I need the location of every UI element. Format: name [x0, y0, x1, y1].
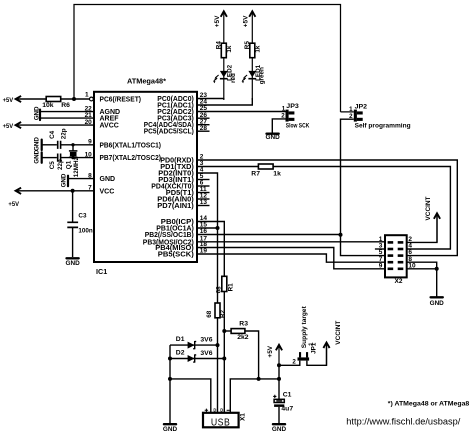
svg-text:D2: D2	[176, 350, 185, 357]
svg-text:9: 9	[88, 139, 92, 146]
IC1 left pin numbers	[85, 92, 93, 192]
node R3/D-	[222, 329, 226, 333]
wire X2 pin 8 to pin 10 to ground	[407, 262, 437, 296]
capacitor C4 22p	[42, 128, 67, 149]
node +5V rail / C1	[277, 377, 281, 381]
pin 1 inversion circle (PC6/RESET)	[90, 97, 94, 101]
svg-text:1k: 1k	[226, 45, 233, 53]
svg-text:+5V: +5V	[3, 123, 14, 130]
wire R3 to +5V rail	[245, 331, 259, 379]
resistor R1 68	[215, 276, 234, 293]
jumper JP1 supply target	[292, 305, 317, 365]
wire AREF pin 21	[40, 117, 94, 119]
wire JP1 pin 1 to VCCINT arrow	[307, 347, 327, 365]
node VCC/C3	[71, 189, 75, 193]
+5V supply arrow (R5 branch)	[243, 11, 256, 100]
node GND rail left	[168, 377, 172, 381]
svg-text:Q1: Q1	[65, 160, 72, 169]
svg-text:AREF: AREF	[100, 116, 120, 123]
wire PB4 pin 18 to X2 pin 9 (MISO)	[197, 248, 385, 269]
svg-text:+5V: +5V	[243, 15, 250, 27]
ground symbol pin8 (rotated)	[61, 173, 68, 187]
wire PB2 pin 16 to X2 pin 5 (target reset)	[197, 235, 385, 256]
svg-text:+5V: +5V	[267, 345, 274, 357]
svg-text:D1: D1	[176, 336, 185, 343]
diode D1 3V6 zener	[176, 336, 213, 349]
svg-text:7: 7	[88, 185, 92, 192]
resistor R3 2k2	[224, 320, 248, 341]
ground symbol USB left	[163, 424, 178, 433]
svg-text:JP3: JP3	[286, 103, 299, 110]
svg-text:D: D	[213, 408, 216, 413]
ground symbol C5 (rotated)	[33, 150, 41, 164]
node +5V / JP1	[277, 363, 281, 367]
wire PD1 pin 3 to R7	[197, 166, 258, 168]
node R3 drop / +5V rail	[257, 377, 261, 381]
svg-text:21: 21	[85, 112, 93, 119]
svg-text:GND: GND	[430, 300, 445, 307]
svg-text:D: D	[220, 408, 223, 413]
svg-text:JP1: JP1	[310, 342, 317, 354]
resistor R4 1k	[215, 41, 233, 58]
svg-text:9: 9	[379, 262, 383, 269]
svg-text:PC5(ADC5/SCL): PC5(ADC5/SCL)	[144, 129, 194, 136]
wire reset net: top rail from above IC to JP2	[74, 5, 354, 112]
diode D2 3V6 zener	[176, 350, 213, 363]
wire PD2 pin 4 / PB1 pin 15 D+ net down	[197, 173, 218, 303]
svg-text:1k: 1k	[255, 45, 262, 53]
svg-text:1: 1	[85, 92, 89, 99]
svg-text:USB: USB	[211, 417, 231, 428]
svg-text:PB6(XTAL1/TOSC1): PB6(XTAL1/TOSC1)	[100, 142, 162, 149]
node D1/D+	[216, 343, 220, 347]
wire D1 row	[170, 344, 218, 346]
svg-text:GND: GND	[33, 106, 40, 120]
ground symbol AGND/AREF (rotated)	[33, 106, 40, 120]
svg-text:PB5(SCK): PB5(SCK)	[158, 252, 194, 259]
svg-text:R3: R3	[239, 320, 248, 327]
capacitor C3 100n	[67, 191, 93, 257]
node PB1/D+	[216, 226, 220, 230]
wire PC1 pin 24 to LED branch	[197, 98, 252, 105]
svg-text:Supply target: Supply target	[301, 305, 308, 348]
IC1 left pin names	[100, 97, 162, 196]
IC1 right pin names	[143, 96, 194, 259]
node D2 anode	[168, 357, 172, 361]
note ATMega48 footnote	[388, 400, 470, 407]
capacitor C1 4u7	[273, 365, 293, 423]
svg-text:R7: R7	[251, 171, 260, 178]
svg-text:3V6: 3V6	[200, 350, 212, 357]
node crystal/XTAL2	[71, 156, 74, 159]
resistor R5 1k	[244, 41, 262, 58]
IC1 unconnected pin stubs (26,27,28,5,6,11,12,13)	[197, 118, 210, 205]
node X2 pin8/pin10	[435, 267, 439, 271]
svg-text:68: 68	[215, 286, 222, 294]
svg-text:4u7: 4u7	[281, 405, 293, 412]
svg-text:http://www.fischl.de/usbasp/: http://www.fischl.de/usbasp/	[346, 417, 460, 428]
wire X2 pin 2 to VCCINT arrow	[407, 213, 437, 242]
ground symbol C3	[66, 258, 81, 267]
connector X1 USB	[203, 413, 246, 429]
svg-text:X1: X1	[239, 413, 246, 421]
svg-text:*) ATMega48 or ATMega8: *) ATMega48 or ATMega8	[388, 400, 470, 407]
connector X2 (10-pin ISP header)	[379, 235, 416, 285]
crystal Q1 12MHz	[65, 145, 80, 177]
node crystal/XTAL1	[71, 143, 74, 146]
IC1 right pin numbers	[200, 92, 208, 255]
resistor R2 68	[206, 303, 227, 318]
svg-text:GND: GND	[272, 427, 287, 433]
svg-text:green: green	[258, 67, 265, 84]
node junction reset/top-rail	[72, 97, 76, 101]
jumper JP2	[349, 103, 410, 129]
svg-text:C3: C3	[78, 212, 87, 219]
wire R7 to X2 pin 4	[273, 167, 450, 250]
wire VCC pin 7	[16, 190, 94, 192]
svg-text:VCCINT: VCCINT	[335, 321, 342, 345]
svg-text:GND: GND	[266, 135, 281, 141]
svg-text:PD7(AIN1): PD7(AIN1)	[157, 203, 194, 210]
svg-text:+5V: +5V	[214, 15, 221, 27]
wire PD0 pin 2 to X2 pin 6	[197, 160, 457, 256]
svg-text:8: 8	[88, 172, 92, 179]
wire PC2 pin 25 to JP3	[197, 111, 286, 113]
ground symbol X2	[430, 297, 445, 307]
svg-text:2k2: 2k2	[237, 334, 249, 341]
USB pin name marks	[205, 408, 230, 413]
wire D2 row	[170, 358, 224, 360]
+5V supply arrow (USB)	[267, 345, 282, 366]
svg-text:1k: 1k	[273, 171, 281, 178]
wire JP3 pin 2 to ground	[272, 119, 285, 133]
svg-text:GND: GND	[66, 260, 81, 267]
capacitor C5 22p	[42, 154, 64, 171]
svg-text:GND: GND	[33, 150, 40, 164]
svg-text:R5: R5	[244, 41, 251, 50]
svg-text:2: 2	[292, 359, 296, 366]
svg-text:68: 68	[206, 310, 213, 318]
wire PB0 pin 14 D- net down	[197, 222, 224, 277]
ground symbol C4 (rotated)	[33, 137, 41, 151]
svg-text:VCCINT: VCCINT	[425, 196, 432, 220]
wire XTAL1 pin 9 row	[61, 144, 94, 146]
svg-text:PB2(/SS/OC1B): PB2(/SS/OC1B)	[145, 232, 194, 239]
wire GND rail to USB pin 1	[170, 379, 211, 412]
svg-text:IC1: IC1	[96, 267, 107, 276]
LED LED1 green	[242, 64, 266, 84]
svg-text:22p: 22p	[57, 159, 64, 170]
svg-text:VCC: VCC	[100, 188, 115, 195]
svg-text:GND: GND	[33, 137, 40, 151]
+5V supply arrow (VCC pin 7)	[8, 188, 21, 209]
VCCINT supply arrow (JP1)	[323, 321, 341, 366]
+5V supply arrow (R4 branch)	[214, 11, 227, 100]
wire X2 pin 3 stub	[375, 248, 385, 250]
wire AVCC pin 20	[16, 124, 94, 126]
svg-text:10k: 10k	[42, 102, 54, 109]
svg-text:GND: GND	[100, 176, 116, 183]
svg-text:AVCC: AVCC	[100, 123, 119, 130]
svg-text:ATMega48*: ATMega48*	[127, 77, 166, 86]
wire +5V node to JP1 pin 2	[279, 361, 300, 366]
ground symbol C1	[272, 424, 287, 433]
wire JP2 pin 2 down to PB2 net	[341, 119, 354, 235]
svg-text:C5: C5	[49, 161, 56, 170]
svg-text:C4: C4	[49, 130, 56, 139]
resistor R7 1k	[251, 164, 281, 178]
svg-text:100n: 100n	[78, 227, 93, 234]
svg-text:+5V: +5V	[3, 97, 14, 104]
+5V supply arrow (AVCC)	[3, 122, 22, 130]
svg-text:10: 10	[85, 151, 93, 158]
svg-text:R4: R4	[215, 41, 222, 50]
svg-text:R6: R6	[61, 102, 70, 109]
VCCINT supply arrow (X2)	[425, 196, 440, 242]
LED LED2 red	[213, 64, 237, 83]
svg-text:PC6(/RESET): PC6(/RESET)	[100, 97, 142, 104]
svg-text:22p: 22p	[60, 128, 67, 139]
svg-text:red: red	[230, 73, 237, 83]
wire R6 to IC pin 1	[61, 98, 90, 100]
svg-text:1: 1	[282, 106, 286, 113]
+5V supply arrow (reset pull-up)	[3, 96, 22, 104]
wire PB3 pin 17 to X2 pin 1 (MOSI)	[197, 241, 385, 243]
wire +5V to R6	[16, 98, 46, 100]
svg-text:GND: GND	[61, 173, 68, 187]
node D2/D-	[222, 357, 226, 361]
svg-text:12MHz: 12MHz	[73, 157, 80, 177]
node JP2/PB2 junction	[339, 233, 343, 237]
svg-text:X2: X2	[395, 278, 403, 285]
wire R1 to USB D- pin	[223, 292, 225, 413]
wire GND pin 8	[68, 178, 94, 180]
jumper JP3	[281, 103, 309, 129]
svg-text:JP2: JP2	[355, 103, 368, 110]
wire PC0 pin 23 to LED branch	[197, 97, 224, 100]
wire AGND pin 22	[40, 111, 94, 113]
wire R2 to USB D+ pin	[217, 318, 219, 412]
svg-text:PB7(XTAL2/TOSC2): PB7(XTAL2/TOSC2)	[100, 155, 162, 162]
ground symbol JP3	[266, 134, 281, 142]
op-amp/IC body IC1 ATMega48	[94, 77, 197, 277]
wire zener anodes to ground	[169, 345, 171, 423]
svg-text:R1: R1	[227, 283, 234, 292]
svg-text:R2: R2	[220, 309, 227, 318]
svg-text:+5V: +5V	[8, 201, 19, 208]
svg-text:3V6: 3V6	[200, 336, 212, 343]
wire PB1 pin 15 to D+ net	[197, 227, 218, 229]
svg-text:1: 1	[349, 106, 353, 113]
wire PB5 pin 19 to X2 pin 7 (SCK)	[197, 254, 385, 262]
svg-text:20: 20	[85, 119, 93, 126]
svg-text:C1: C1	[283, 391, 292, 398]
resistor R6 10k	[42, 97, 70, 110]
URL fischl.de	[346, 417, 460, 428]
svg-text:GND: GND	[163, 427, 178, 433]
svg-text:Slow SCK: Slow SCK	[286, 122, 310, 129]
wire USB pin 4 to +5V rail	[230, 379, 279, 412]
svg-text:Self programming: Self programming	[355, 123, 411, 130]
wire XTAL2 pin 10 row	[61, 157, 94, 159]
